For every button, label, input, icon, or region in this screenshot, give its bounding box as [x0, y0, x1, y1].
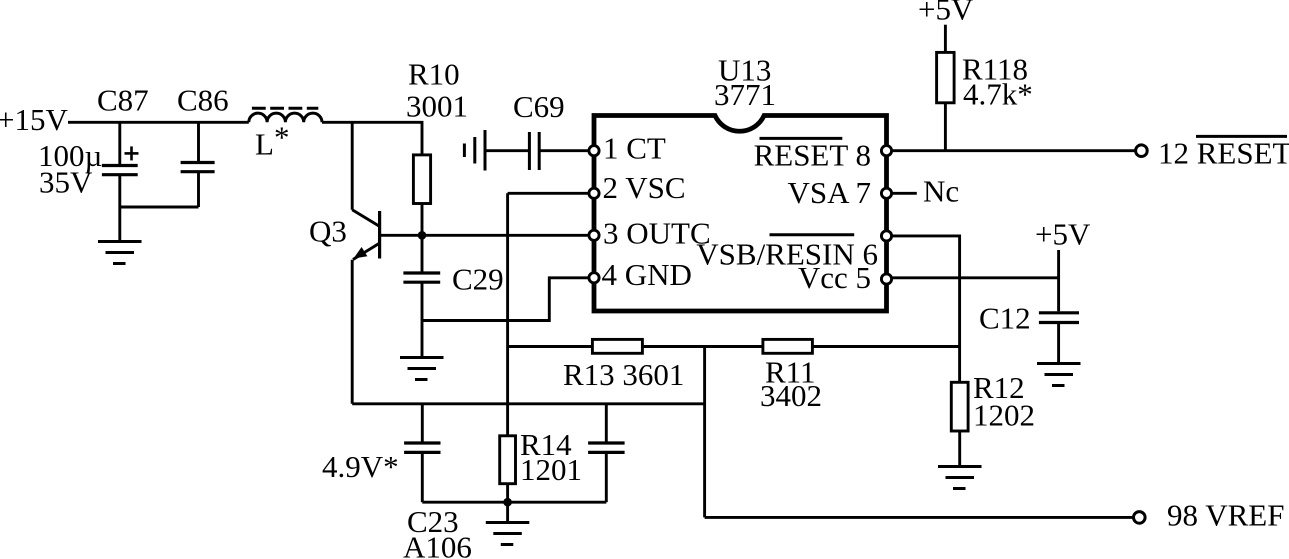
wire ground to C69 — [485, 149, 529, 152]
wire pin2 to vertical — [508, 192, 589, 195]
svg-text:12 RESET: 12 RESET — [1158, 136, 1289, 171]
terminal 98 VREF — [1134, 512, 1146, 524]
capacitor right of R14 — [588, 404, 625, 502]
svg-text:L: L — [255, 127, 274, 162]
svg-text:Vcc 5: Vcc 5 — [798, 260, 871, 295]
capacitor C29 — [403, 235, 440, 357]
wire to ground — [118, 207, 121, 241]
svg-text:*: * — [274, 120, 290, 155]
capacitor C23 — [404, 404, 440, 502]
resistor R14 — [500, 436, 516, 484]
pin 8 — [881, 146, 891, 156]
overline 12 RESET — [1196, 135, 1287, 138]
svg-text:C69: C69 — [513, 89, 565, 124]
svg-text:3 OUTC: 3 OUTC — [603, 216, 711, 251]
svg-text:4.7k*: 4.7k* — [963, 77, 1033, 112]
svg-text:1 CT: 1 CT — [603, 131, 666, 166]
ground sideways for C69 — [464, 130, 485, 171]
ground for C29 — [400, 358, 444, 380]
svg-text:2 VSC: 2 VSC — [603, 170, 686, 205]
resistor R12 — [951, 382, 968, 431]
wire pin2 vertical down to R14 — [506, 193, 509, 435]
wire bottom node — [422, 501, 606, 504]
capacitor C12 — [1039, 313, 1079, 363]
svg-text:C29: C29 — [452, 262, 504, 297]
wire pin6 to R12 — [892, 236, 960, 382]
svg-text:RESET 8: RESET 8 — [754, 138, 871, 173]
wire R118 to pin8 rail — [944, 103, 947, 151]
pin 6 — [881, 231, 891, 241]
capacitor C69 — [529, 132, 539, 170]
ground for C12 — [1037, 364, 1081, 386]
pin 8 overline — [760, 137, 843, 140]
svg-text:R13 3601: R13 3601 — [563, 357, 684, 392]
svg-text:Nc: Nc — [923, 174, 959, 209]
wire pin5 to +5V node — [892, 276, 1059, 279]
inductor L* — [249, 108, 322, 122]
wire +5V down to C12 — [1057, 250, 1060, 311]
pin 7 — [881, 188, 891, 198]
wire R14 bottom — [506, 484, 509, 503]
svg-text:+15V: +15V — [0, 102, 68, 137]
wire R13 left lead — [508, 345, 593, 348]
wire emitter bus — [352, 402, 704, 405]
transistor Q3 — [352, 122, 379, 404]
svg-text:3001: 3001 — [406, 89, 468, 124]
svg-text:35V: 35V — [39, 165, 93, 200]
wire pin4 — [422, 278, 589, 321]
svg-text:R10: R10 — [408, 57, 460, 92]
wire pin8 to terminal — [892, 149, 1136, 152]
svg-text:C86: C86 — [177, 83, 229, 118]
pin 1 — [589, 146, 599, 156]
svg-text:C87: C87 — [97, 83, 149, 118]
pin 6 overline — [770, 233, 855, 236]
op-amp U13 IC body — [594, 116, 887, 312]
resistor R10 — [413, 155, 430, 204]
wire vref vertical — [703, 347, 706, 518]
wire vref horizontal — [705, 516, 1134, 519]
svg-text:+5V: +5V — [918, 0, 974, 27]
ground — [98, 242, 142, 264]
wire inductor to R10 corner — [322, 122, 422, 155]
junction dot bottom — [503, 498, 512, 507]
pin 5 — [881, 274, 891, 284]
svg-text:Q3: Q3 — [309, 214, 347, 249]
svg-text:1201: 1201 — [520, 452, 582, 487]
capacitor C87 — [102, 122, 139, 207]
svg-text:1202: 1202 — [973, 398, 1035, 433]
svg-text:4 GND: 4 GND — [602, 257, 692, 292]
wire C69 to pin1 — [539, 149, 589, 152]
wire R11 to pin6 vertical — [812, 345, 959, 348]
wire +5V to R118 — [944, 25, 947, 53]
wire R10 to node — [421, 204, 424, 236]
svg-text:VSA 7: VSA 7 — [787, 175, 871, 210]
svg-text:+5V: +5V — [1035, 217, 1091, 252]
svg-text:A106: A106 — [403, 530, 472, 559]
pin 2 — [589, 188, 599, 198]
junction dot — [418, 231, 427, 240]
svg-text:C12: C12 — [979, 301, 1031, 336]
capacitor C86 — [181, 122, 215, 207]
terminal 12 RESET — [1136, 145, 1148, 157]
ground for R14 — [486, 523, 530, 545]
pin 3 — [589, 230, 599, 240]
resistor R11 — [763, 339, 813, 353]
svg-text:98 VREF: 98 VREF — [1167, 498, 1284, 533]
resistor R118 — [937, 52, 955, 102]
wire pin7 stub — [892, 192, 917, 195]
pin 4 — [589, 273, 599, 283]
wire R13 to R11 — [642, 345, 763, 348]
svg-text:4.9V*: 4.9V* — [322, 449, 399, 484]
svg-text:3771: 3771 — [714, 77, 776, 112]
wire Q3 base to pin3 — [380, 234, 589, 237]
svg-text:3402: 3402 — [760, 378, 822, 413]
wire dot to ground — [506, 502, 509, 522]
wire C87-C86 bottom — [120, 206, 199, 209]
resistor R13 — [592, 339, 642, 353]
wire R12 to ground — [958, 431, 961, 466]
wire +15V rail — [68, 121, 249, 124]
ground for R12 — [938, 467, 982, 489]
